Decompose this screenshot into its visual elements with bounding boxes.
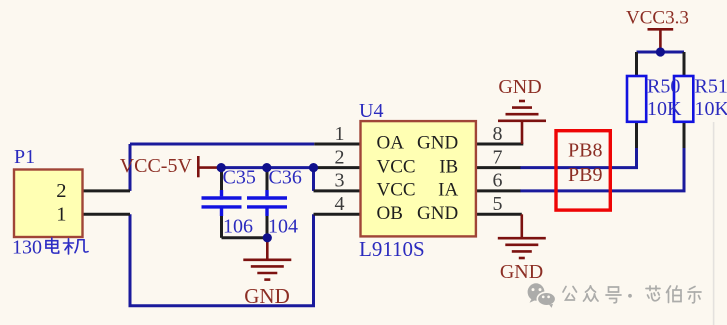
svg-text:104: 104	[268, 216, 298, 238]
svg-text:10K: 10K	[647, 98, 682, 120]
svg-text:P1: P1	[14, 146, 35, 168]
svg-text:GND: GND	[417, 203, 458, 224]
svg-text:GND: GND	[498, 76, 541, 98]
svg-text:GND: GND	[244, 284, 290, 308]
svg-text:R50: R50	[647, 75, 680, 97]
svg-text:VCC: VCC	[377, 180, 416, 201]
svg-text:IB: IB	[439, 156, 458, 177]
svg-text:4: 4	[335, 193, 345, 215]
svg-text:VCC3.3: VCC3.3	[626, 8, 689, 29]
svg-text:OA: OA	[377, 133, 405, 154]
svg-text:L9110S: L9110S	[359, 237, 425, 261]
svg-text:8: 8	[493, 123, 503, 145]
svg-text:10K: 10K	[695, 98, 727, 120]
svg-text:7: 7	[493, 146, 503, 168]
svg-text:GND: GND	[417, 133, 458, 154]
svg-text:5: 5	[493, 193, 503, 215]
svg-text:VCC-5V: VCC-5V	[120, 155, 193, 177]
svg-text:OB: OB	[377, 203, 403, 224]
svg-text:PB9: PB9	[568, 164, 602, 186]
svg-text:1: 1	[56, 203, 66, 225]
svg-text:2: 2	[335, 146, 345, 168]
svg-text:1: 1	[335, 123, 345, 145]
svg-text:C35: C35	[223, 167, 256, 189]
svg-text:3: 3	[335, 170, 345, 192]
svg-text:GND: GND	[500, 261, 543, 283]
svg-text:130: 130	[12, 237, 42, 259]
svg-text:IA: IA	[438, 180, 458, 201]
svg-text:2: 2	[56, 180, 66, 202]
svg-text:106: 106	[223, 216, 253, 238]
svg-text:VCC: VCC	[377, 156, 416, 177]
svg-text:6: 6	[493, 170, 503, 192]
svg-text:PB8: PB8	[568, 140, 602, 162]
svg-text:U4: U4	[359, 100, 383, 122]
svg-text:C36: C36	[269, 167, 302, 189]
svg-text:R51: R51	[695, 75, 727, 97]
